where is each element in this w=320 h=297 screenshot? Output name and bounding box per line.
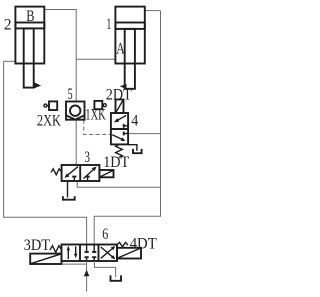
svg-text:2DT: 2DT: [106, 87, 132, 104]
wire left riser: [4, 61, 87, 244]
valve 3 exhaust tank: [63, 181, 75, 200]
check valve U5 box: [66, 102, 85, 120]
wire node N1 to cylinder A rod-end port: [76, 58, 115, 60]
valve 6 right solenoid 4DT: [117, 248, 141, 259]
valve 4 lower box flow arrow: [112, 135, 125, 141]
valve 3 left box blocked port: [72, 177, 76, 181]
valve 4 lower box blocked port: [124, 132, 128, 136]
limit switch 1XK symbol: [94, 101, 106, 109]
valve 4 upper box blocked port: [124, 124, 128, 128]
svg-text:4DT: 4DT: [130, 236, 157, 253]
svg-text:1XK: 1XK: [85, 107, 106, 124]
valve 4 exhaust tank: [129, 145, 142, 154]
cylinder 2 piston: [15, 23, 44, 29]
valve 3 right box flow arrow: [83, 167, 96, 179]
valve 6 left box up arrow: [67, 246, 70, 259]
pilot line (dashed) from check valve outlet to valve 4: [84, 120, 111, 135]
svg-text:2XK: 2XK: [37, 113, 61, 130]
svg-text:1: 1: [106, 16, 111, 33]
valve 3 right box blocked port: [86, 177, 90, 181]
svg-text:6: 6: [102, 226, 108, 243]
valve 3 body (two position boxes): [62, 165, 100, 181]
cylinder 1 rod tip arrow: [120, 84, 127, 89]
cylinder 1 piston: [115, 23, 144, 29]
valve 6 right spring: [117, 242, 128, 246]
valve 4 solenoid 2DT: [116, 100, 124, 114]
wire cylinder B top port to node N1: [44, 10, 76, 60]
wire node N1 down to check valve 5 inlet: [75, 59, 77, 102]
valve 4 upper box flow arrow: [114, 115, 126, 122]
check valve U5 seat: [66, 115, 85, 119]
wire cylinder A top port to right riser: [145, 10, 161, 12]
svg-text:4: 4: [131, 112, 138, 129]
valve 3 return spring: [51, 169, 62, 175]
valve 6 exhaust tank: [94, 261, 121, 281]
valve 6 left spring: [50, 246, 62, 253]
pressure supply line with arrow: [62, 261, 90, 292]
svg-text:1DT: 1DT: [103, 154, 129, 171]
wire valve 3 outlet to right riser: [77, 181, 160, 187]
valve 6 body (three position boxes): [62, 245, 118, 262]
valve 6 left box down arrow: [74, 246, 77, 258]
cylinder 2 rod tip arrow: [34, 82, 41, 88]
svg-text:A: A: [116, 40, 125, 57]
limit switch 2XK symbol: [44, 101, 57, 110]
wire valve 4 outlet to right riser: [128, 133, 160, 135]
svg-text:5: 5: [68, 86, 73, 103]
svg-text:2: 2: [4, 17, 12, 34]
check valve U5 ball: [70, 106, 80, 116]
valve 4 body (two position boxes): [111, 113, 128, 144]
cylinder 1 piston rod: [125, 29, 135, 89]
valve 6 left solenoid 3DT: [30, 254, 61, 264]
cylinder 2 (B) body: [15, 7, 44, 64]
svg-text:3: 3: [84, 149, 90, 166]
wire right riser: [94, 11, 160, 245]
cylinder 1 (A) body: [115, 7, 144, 64]
svg-text:3DT: 3DT: [24, 237, 51, 254]
valve 3 solenoid 1DT: [99, 170, 113, 177]
wire check valve 5 outlet to valve 3 inlet: [75, 119, 77, 166]
svg-text:B: B: [26, 8, 34, 25]
wire cylinder B rod-end port to left riser: [4, 60, 16, 62]
valve 4 return spring: [116, 144, 123, 157]
cylinder 2 piston rod: [24, 28, 34, 87]
valve 6 right box crossed arrows: [101, 246, 116, 259]
valve 6 centre box blocked ports: [85, 245, 97, 262]
valve 3 left box flow arrow: [64, 167, 78, 178]
